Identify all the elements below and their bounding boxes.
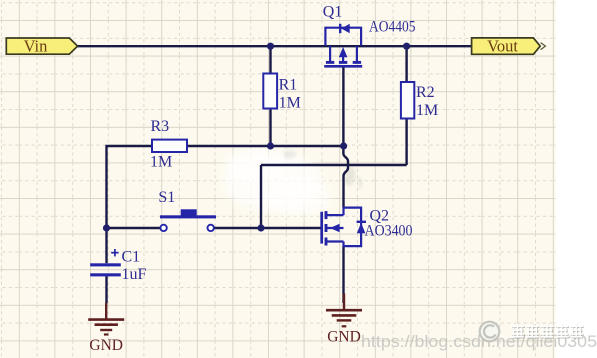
svg-text:S1: S1 xyxy=(158,189,175,206)
svg-text:Vout: Vout xyxy=(487,37,518,56)
svg-text:AO3400: AO3400 xyxy=(365,223,413,240)
svg-text:R2: R2 xyxy=(416,84,435,101)
svg-text:GND: GND xyxy=(327,329,361,346)
svg-text:Vin: Vin xyxy=(24,37,48,56)
svg-text:1M: 1M xyxy=(279,95,301,112)
svg-text:C1: C1 xyxy=(122,249,141,266)
svg-text:AO4405: AO4405 xyxy=(369,19,416,36)
svg-text:1M: 1M xyxy=(416,102,438,119)
svg-text:R1: R1 xyxy=(279,77,298,94)
svg-text:Q1: Q1 xyxy=(323,4,343,21)
svg-text:GND: GND xyxy=(89,337,123,354)
svg-text:1M: 1M xyxy=(150,154,172,171)
svg-text:1uF: 1uF xyxy=(122,266,147,283)
svg-text:R3: R3 xyxy=(151,118,170,135)
